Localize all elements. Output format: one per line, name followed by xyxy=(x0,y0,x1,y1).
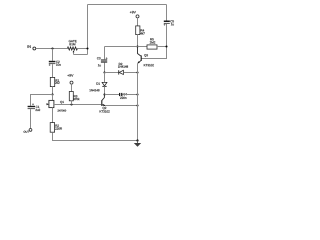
wire pot wiper return xyxy=(74,54,88,56)
node junction D1/C4/Q2 collector xyxy=(103,93,105,95)
wire node to C4 xyxy=(105,94,120,96)
wire Q1 gate to R3/Q2 xyxy=(54,104,101,106)
node OUT terminal xyxy=(24,129,32,133)
transistor Q2 (KT3102) xyxy=(100,95,110,113)
node junction C4/emitter line xyxy=(136,93,138,95)
ground xyxy=(134,141,141,147)
wire node to D2 xyxy=(105,72,119,74)
node junction pot/rail xyxy=(86,47,88,49)
node junction ground rail xyxy=(136,139,138,141)
wire +9V to R3 xyxy=(71,84,73,91)
node junction C3/D1/D2 xyxy=(103,71,105,73)
resistor R5 xyxy=(147,38,157,49)
wire R1 bottom to drain node xyxy=(52,87,54,95)
wire C3 branch top xyxy=(104,47,106,60)
wire C5 bottom to R5 node xyxy=(166,24,168,47)
wire C1 to OUT terminal xyxy=(30,109,32,128)
wire R3 bottom lead xyxy=(71,101,73,105)
diode D2 1N4148 xyxy=(118,63,128,75)
wire +9V to R4 xyxy=(137,18,139,26)
transistor Q3 (KT3102) xyxy=(138,47,154,67)
node drain junction xyxy=(51,93,53,95)
wire R2 bottom to ground rail xyxy=(53,132,138,140)
wire R5 node down and left to Q3 base xyxy=(141,47,166,59)
capacitor C1 xyxy=(28,103,41,111)
node junction Q2 emitter/vertical xyxy=(136,104,138,106)
node junction R4/R5/C3 wire xyxy=(136,45,138,47)
wire input node down to C2 xyxy=(52,49,54,61)
wire R5 to right rail xyxy=(157,46,167,48)
wire C4 to emitter line xyxy=(122,94,137,96)
wire Q2 emitter to vertical line xyxy=(105,105,137,107)
node IN terminal xyxy=(28,45,36,50)
wire D2 to Q3 emitter line xyxy=(123,72,137,74)
wire D1 to C4 node xyxy=(104,86,106,94)
wire R4 bottom to node xyxy=(137,35,139,47)
wire left vertical of top rail down to pot xyxy=(87,5,89,55)
capacitor C3 xyxy=(97,57,108,66)
node junction D2/emitter line xyxy=(136,71,138,73)
node junction R5/right rail xyxy=(165,45,167,47)
wire drain node left to C1 xyxy=(31,95,53,106)
node junction R3 bottom xyxy=(70,103,72,105)
wire C2 to R1 xyxy=(52,64,54,77)
wire node left to C3 branch xyxy=(105,46,138,48)
node +9V terminal (R3) xyxy=(67,74,73,84)
resistor R4 xyxy=(136,26,145,35)
node +9V terminal (top) xyxy=(130,11,139,18)
diode D1 1N4148 xyxy=(89,82,106,91)
capacitor C4 xyxy=(119,93,127,99)
resistor R1 xyxy=(50,77,59,86)
wire input line xyxy=(36,48,68,50)
wire C3 bottom to node xyxy=(104,63,106,73)
wire right vertical rail to C5 xyxy=(166,5,168,21)
capacitor C2 xyxy=(49,61,61,66)
node junction input/C2 xyxy=(51,47,53,49)
wire node right to R5 xyxy=(138,46,148,48)
transistor Q1 (MOSFET 2N7000) xyxy=(47,95,67,123)
capacitor C5 xyxy=(164,20,174,26)
resistor R3 xyxy=(69,92,79,101)
resistor R2 xyxy=(50,123,62,133)
wire top rail xyxy=(88,4,167,6)
wire pot right terminal to vertical rail xyxy=(77,48,87,50)
wire node down to D1 xyxy=(104,73,106,83)
wire Q3 emitter vertical line down to ground xyxy=(137,63,139,140)
potentiometer GATE B1M xyxy=(67,40,77,54)
